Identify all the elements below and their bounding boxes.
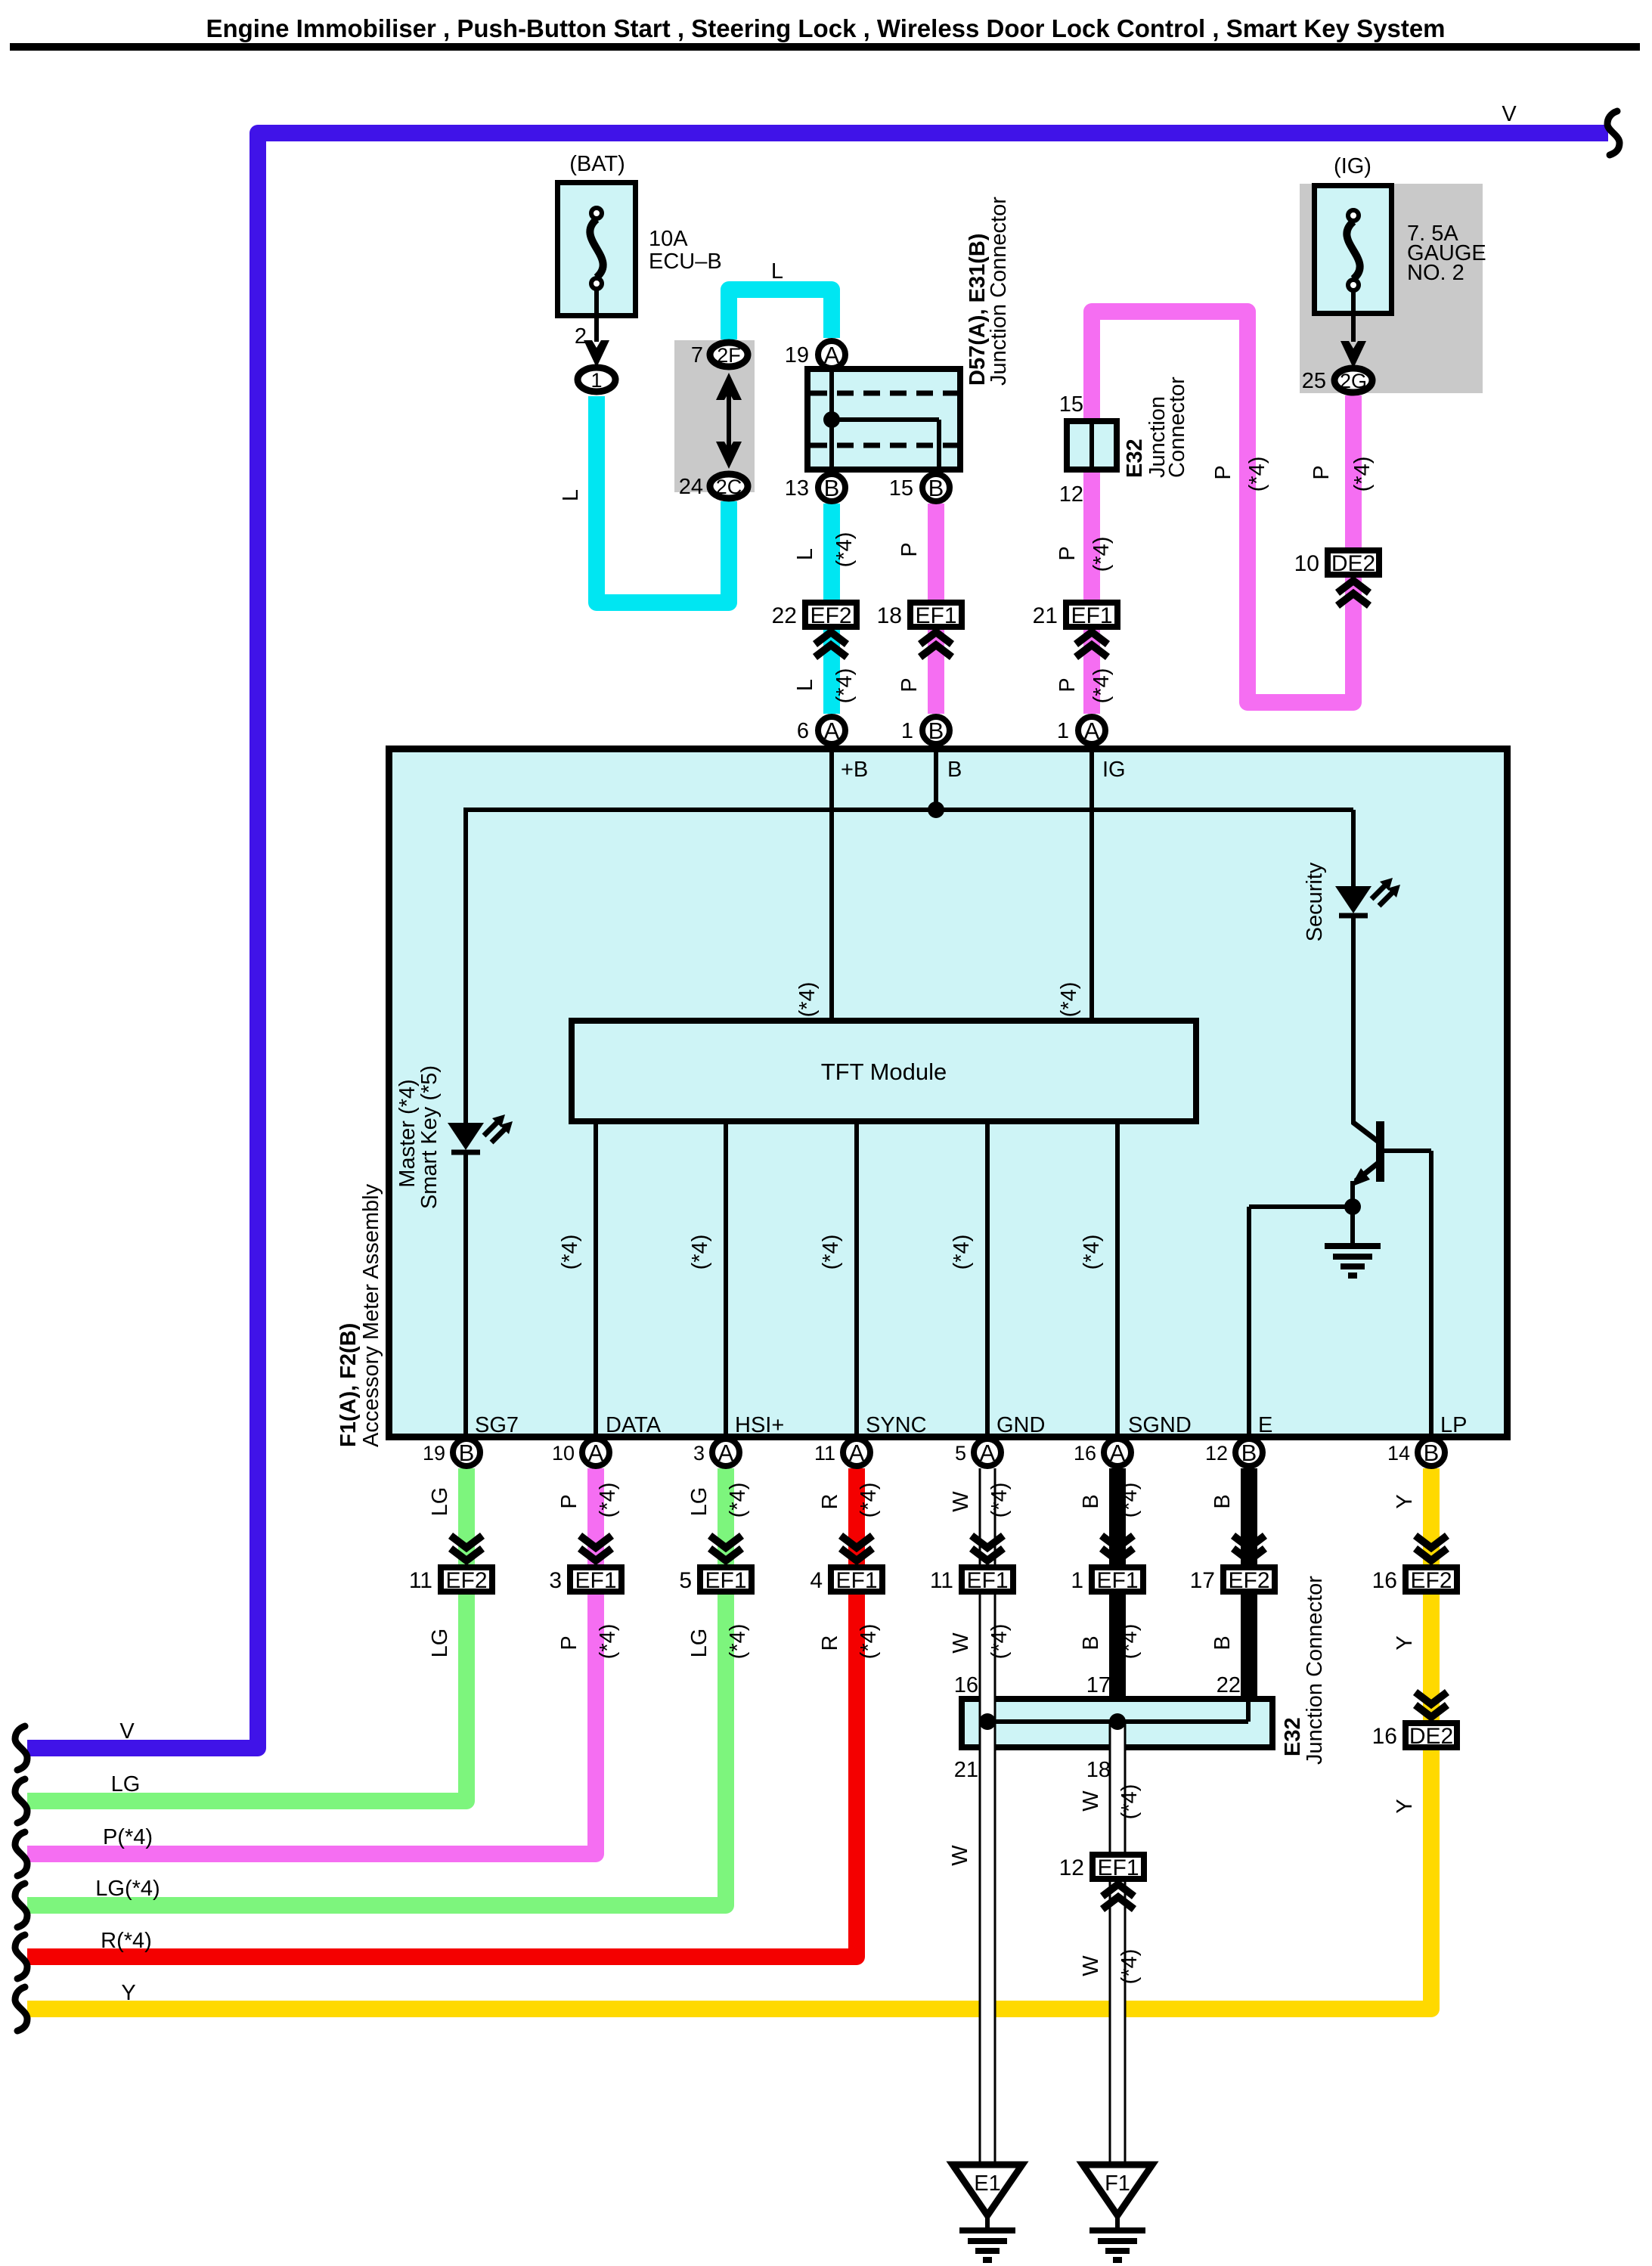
pin B13 of D57 (818, 474, 845, 501)
svg-text:E: E (1258, 1413, 1272, 1437)
svg-text:17: 17 (1086, 1673, 1111, 1697)
D57 internal joint (832, 417, 939, 422)
svg-text:13: 13 (785, 476, 809, 501)
svg-text:1: 1 (1057, 719, 1069, 743)
wire V violet: battery feed (27, 133, 1608, 1748)
meter pin B19 (SG7) (453, 1439, 480, 1466)
meter pin A10 (DATA) (582, 1439, 609, 1466)
svg-text:10: 10 (552, 1442, 575, 1465)
LED Security (1335, 886, 1372, 913)
svg-text:A: A (588, 1440, 604, 1466)
svg-text:LG: LG (428, 1629, 452, 1658)
svg-text:TFT Module: TFT Module (821, 1059, 947, 1085)
svg-text:16: 16 (1372, 1724, 1397, 1749)
wire W white: GND pin A5 to ground E1 (979, 1468, 996, 2165)
svg-text:(*4): (*4) (832, 668, 857, 704)
meter pin A16 (SGND) (1104, 1439, 1131, 1466)
svg-text:EF1: EF1 (1096, 1568, 1138, 1593)
wire B black: meter pin A16 SGND to junction E32 (1109, 1468, 1126, 1722)
svg-text:(*4): (*4) (987, 1624, 1012, 1660)
wire P pink: junction B15 to meter pin B1 (928, 504, 944, 714)
svg-text:Engine Immobiliser , Push-Butt: Engine Immobiliser , Push-Button Start ,… (206, 14, 1445, 42)
svg-text:W: W (949, 1632, 973, 1654)
connector oval 2G (1334, 368, 1372, 392)
svg-text:17: 17 (1190, 1568, 1215, 1593)
svg-text:L: L (793, 679, 817, 691)
ground F1 (1083, 2165, 1152, 2215)
svg-text:(*4): (*4) (1089, 668, 1114, 704)
wire L cyan: connector 2F to junction A19 (729, 290, 832, 339)
svg-text:Security: Security (1303, 862, 1327, 941)
svg-text:16: 16 (1074, 1442, 1096, 1465)
svg-text:(*4): (*4) (1117, 1784, 1142, 1820)
splice EF1 pin 12 (SGND W) (1102, 1884, 1134, 1896)
svg-text:2: 2 (575, 324, 587, 349)
splice EF1 pin 18 (920, 632, 952, 644)
svg-text:4: 4 (810, 1568, 823, 1593)
svg-text:Y: Y (121, 1981, 135, 2005)
break symbol V left (15, 1726, 27, 1770)
svg-text:11: 11 (409, 1568, 432, 1593)
svg-text:5: 5 (955, 1442, 966, 1465)
meter pin B12 (E) (1235, 1439, 1263, 1466)
svg-text:EF1: EF1 (1097, 1855, 1139, 1880)
svg-text:3: 3 (549, 1568, 562, 1593)
svg-text:L: L (559, 489, 583, 501)
svg-text:(*4): (*4) (1117, 1949, 1142, 1985)
svg-text:(*4): (*4) (1350, 457, 1375, 492)
svg-text:LG: LG (687, 1629, 711, 1658)
svg-text:V: V (119, 1719, 135, 1744)
svg-text:(*4): (*4) (1245, 457, 1269, 492)
svg-text:LG: LG (687, 1487, 711, 1517)
svg-text:19: 19 (423, 1442, 445, 1465)
svg-text:15: 15 (1059, 392, 1083, 417)
svg-text:SYNC: SYNC (866, 1413, 927, 1437)
svg-text:DE2: DE2 (1331, 551, 1375, 576)
svg-text:W: W (1079, 1790, 1103, 1812)
break symbol LG4 left (15, 1883, 27, 1927)
meter pin B1 (B) (922, 717, 950, 744)
svg-text:(*4): (*4) (819, 1235, 843, 1270)
meter internal IG line (1089, 749, 1094, 1021)
wire P pink: fuse 2G via DE2 to junction E32 (1092, 312, 1353, 702)
svg-text:E32: E32 (1281, 1717, 1305, 1756)
svg-text:25: 25 (1302, 369, 1326, 393)
E32 internal bus (987, 1719, 1248, 1724)
svg-text:Junction Connector: Junction Connector (1303, 1576, 1327, 1765)
SG7 line to pin B19 (463, 1152, 468, 1444)
svg-text:19: 19 (785, 343, 809, 367)
svg-text:(BAT): (BAT) (569, 152, 625, 176)
ground (internal) (1325, 1243, 1381, 1249)
svg-text:P(*4): P(*4) (103, 1825, 153, 1849)
svg-text:E32: E32 (1123, 439, 1147, 478)
svg-text:ECU–B: ECU–B (649, 250, 722, 274)
svg-text:B: B (928, 718, 944, 744)
svg-text:14: 14 (1387, 1442, 1410, 1465)
svg-text:(*4): (*4) (1117, 1624, 1142, 1660)
svg-text:NO. 2: NO. 2 (1407, 261, 1464, 285)
svg-text:Y: Y (1393, 1494, 1417, 1508)
wire LG: meter pin B19 SG7 to left edge (27, 1468, 466, 1801)
splice EF1 pin 3 (DATA) (580, 1536, 612, 1548)
svg-text:EF1: EF1 (915, 603, 956, 628)
meter internal supply rail (466, 808, 1353, 812)
splice EF2 pin 22 (815, 632, 847, 644)
svg-text:12: 12 (1205, 1442, 1228, 1465)
svg-text:(*4): (*4) (795, 982, 820, 1018)
splice DE2 pin 16 (LP) (1415, 1692, 1447, 1704)
svg-text:(*4): (*4) (987, 1483, 1012, 1518)
svg-text:(*4): (*4) (1117, 1483, 1142, 1518)
svg-text:18: 18 (877, 603, 902, 628)
svg-text:(*4): (*4) (832, 532, 857, 568)
break symbol LG left (15, 1779, 27, 1823)
svg-text:A: A (718, 1440, 734, 1466)
svg-text:DATA: DATA (606, 1413, 662, 1437)
svg-text:6: 6 (797, 719, 809, 743)
splice EF1 pin 21 (1076, 632, 1108, 644)
base line to LP pin (1382, 1148, 1431, 1153)
svg-text:P: P (1310, 465, 1334, 479)
svg-text:Junction Connector: Junction Connector (987, 197, 1011, 386)
break symbol Y left (15, 1987, 27, 2031)
pin A19 of D57 (818, 341, 845, 368)
svg-text:W: W (949, 1491, 973, 1512)
pin B15 of D57 (922, 474, 950, 501)
meter internal B line (934, 749, 938, 810)
meter pin A3 (HSI+) (712, 1439, 739, 1466)
svg-text:2C: 2C (716, 476, 742, 498)
svg-text:Master (*4): Master (*4) (395, 1079, 420, 1187)
svg-text:P: P (897, 677, 922, 692)
svg-text:1: 1 (1071, 1568, 1083, 1593)
svg-text:11: 11 (930, 1568, 953, 1593)
svg-text:A: A (849, 1440, 865, 1466)
svg-text:(*4): (*4) (726, 1483, 750, 1518)
svg-text:1: 1 (590, 369, 602, 392)
splice EF2 pin 11 (SG7) (451, 1536, 482, 1548)
svg-text:5: 5 (679, 1568, 692, 1593)
junction connector D57(A),E31(B) box (807, 369, 960, 470)
svg-text:EF1: EF1 (575, 1568, 616, 1593)
meter internal +B line (829, 749, 834, 1021)
svg-text:LG: LG (111, 1772, 141, 1796)
meter pin A11 (SYNC) (843, 1439, 870, 1466)
svg-text:+B: +B (841, 758, 868, 782)
splice EF1 pin 1 (SGND) (1102, 1536, 1133, 1548)
svg-text:16: 16 (1372, 1568, 1397, 1593)
svg-text:EF1: EF1 (705, 1568, 746, 1593)
svg-text:EF1: EF1 (835, 1568, 877, 1593)
connector oval 2F (710, 343, 748, 367)
svg-text:(*4): (*4) (857, 1624, 881, 1660)
meter pin A6 (+B) (818, 717, 845, 744)
svg-text:EF1: EF1 (1071, 603, 1112, 628)
break symbol P left (15, 1832, 27, 1876)
meter pin B14 (LP) (1418, 1439, 1445, 1466)
svg-text:E1: E1 (974, 2171, 1000, 2196)
svg-text:(*4): (*4) (1057, 982, 1081, 1018)
svg-text:B: B (1079, 1494, 1103, 1508)
break symbol V right (1607, 111, 1619, 155)
wire B black: meter pin B12 E to junction E32 pin 22 (1241, 1468, 1257, 1722)
wire W white: E32 pin 18 to ground F1 (1109, 1722, 1127, 2165)
svg-text:(*4): (*4) (726, 1624, 750, 1660)
collector line (1351, 916, 1356, 1124)
fuse 10A ECU-B (BAT) box (558, 183, 636, 316)
svg-text:P: P (1055, 546, 1080, 560)
junction connector E32 (lower) box (962, 1699, 1272, 1747)
splice EF1 pin 4 (SYNC) (841, 1536, 872, 1548)
wire P pink: junction E32 to meter pin A1 (IG) (1083, 439, 1100, 714)
break symbol R left (15, 1935, 27, 1979)
meter pin A1 (IG) (1078, 717, 1105, 744)
svg-text:P: P (557, 1635, 581, 1650)
emitter line to ground (1350, 1181, 1355, 1244)
svg-text:EF2: EF2 (1410, 1568, 1452, 1593)
svg-text:P: P (1211, 465, 1235, 479)
fuse 7.5A GAUGE NO.2 (IG) box (1315, 186, 1392, 314)
svg-text:SGND: SGND (1128, 1413, 1192, 1437)
connector 2F/2C gray panel (674, 340, 755, 492)
svg-text:Y: Y (1393, 1635, 1417, 1650)
svg-text:Smart Key (*5): Smart Key (*5) (417, 1065, 442, 1209)
splice EF2 pin 16 (LP) (1415, 1536, 1447, 1548)
svg-text:15: 15 (889, 476, 913, 501)
svg-text:(*4): (*4) (688, 1235, 712, 1270)
svg-text:(*4): (*4) (857, 1483, 881, 1518)
svg-text:22: 22 (1217, 1673, 1241, 1697)
svg-text:A: A (980, 1440, 996, 1466)
svg-text:LG: LG (428, 1487, 452, 1517)
TFT output lines (594, 1124, 598, 1444)
splice EF1 pin 5 (HSI+) (710, 1536, 742, 1548)
svg-text:EF2: EF2 (810, 603, 851, 628)
splice DE2 pin 10 (1337, 581, 1369, 593)
svg-text:B: B (1424, 1440, 1440, 1466)
svg-text:(*4): (*4) (950, 1235, 974, 1270)
svg-text:Y: Y (1393, 1799, 1417, 1813)
svg-text:(*4): (*4) (596, 1483, 620, 1518)
svg-text:24: 24 (679, 475, 703, 499)
svg-text:EF2: EF2 (1228, 1568, 1269, 1593)
svg-text:2F: 2F (717, 344, 741, 367)
connector oval 1 (578, 367, 615, 392)
svg-text:W: W (1079, 1955, 1103, 1976)
svg-text:B: B (459, 1440, 475, 1466)
svg-text:3: 3 (693, 1442, 705, 1465)
connector oval 2C (710, 474, 748, 498)
svg-text:1: 1 (901, 719, 913, 743)
svg-text:LP: LP (1440, 1413, 1467, 1437)
svg-text:R: R (818, 1635, 842, 1651)
svg-text:A: A (824, 342, 840, 368)
wire L cyan: fuse ECU-B to connector 2C (597, 396, 729, 603)
svg-text:(*4): (*4) (558, 1235, 582, 1270)
svg-text:LG(*4): LG(*4) (95, 1877, 160, 1901)
svg-text:B: B (1210, 1635, 1235, 1650)
splice EF2 pin 17 (E) (1233, 1536, 1265, 1548)
svg-text:EF1: EF1 (966, 1568, 1008, 1593)
svg-text:B: B (1079, 1635, 1103, 1650)
svg-text:P: P (897, 542, 922, 556)
junction dot on rail (928, 801, 944, 818)
svg-text:2G: 2G (1340, 370, 1367, 392)
svg-text:HSI+: HSI+ (735, 1413, 784, 1437)
svg-text:(IG): (IG) (1334, 154, 1372, 178)
svg-text:L: L (793, 548, 817, 560)
wire LG: meter pin A3 HSI+ to left edge (27, 1468, 726, 1905)
svg-text:R: R (818, 1494, 842, 1510)
TFT Module box (572, 1021, 1196, 1121)
svg-text:B: B (1210, 1494, 1235, 1508)
svg-text:16: 16 (954, 1673, 978, 1697)
security LED feed line (1351, 810, 1356, 888)
wire Y yellow: meter pin B14 LP to left edge (27, 1468, 1431, 2009)
svg-text:V: V (1502, 102, 1517, 126)
svg-text:R(*4): R(*4) (101, 1929, 152, 1953)
svg-text:EF2: EF2 (445, 1568, 487, 1593)
accessory meter assembly F1(A),F2(B) box (389, 749, 1508, 1437)
svg-text:A: A (1110, 1440, 1126, 1466)
LED Master/Smart Key (448, 1123, 484, 1150)
svg-text:P: P (1055, 677, 1080, 692)
svg-text:11: 11 (814, 1442, 835, 1465)
fuse ECU-B lead with arrow to connector pin 1 (594, 288, 599, 342)
transistor Q (security driver) (1376, 1121, 1384, 1182)
title underline (10, 43, 1640, 51)
svg-text:21: 21 (1033, 603, 1058, 628)
svg-text:DE2: DE2 (1409, 1724, 1453, 1749)
svg-text:7: 7 (691, 343, 703, 367)
svg-text:B: B (824, 475, 840, 501)
svg-text:12: 12 (1059, 1855, 1084, 1880)
svg-text:SG7: SG7 (475, 1413, 519, 1437)
svg-text:12: 12 (1059, 482, 1083, 507)
svg-text:B: B (1241, 1440, 1257, 1466)
svg-text:Accessory Meter Assembly: Accessory Meter Assembly (359, 1183, 383, 1447)
svg-text:A: A (824, 718, 840, 744)
splice EF1 pin 11 (GND) (972, 1536, 1003, 1548)
double arrow between 2F and 2C (727, 378, 731, 463)
svg-text:W: W (948, 1845, 972, 1866)
svg-text:(*4): (*4) (1080, 1235, 1104, 1270)
fuse GAUGE NO.2 gray panel (1300, 184, 1483, 393)
svg-text:A: A (1084, 718, 1100, 744)
svg-text:F1(A), F2(B): F1(A), F2(B) (336, 1323, 361, 1447)
svg-text:GND: GND (996, 1413, 1045, 1437)
svg-text:IG: IG (1102, 758, 1126, 782)
svg-text:10: 10 (1294, 551, 1319, 576)
junction connector E32 (upper) box (1067, 421, 1117, 470)
line from emitter junction to E pin (1249, 1204, 1353, 1209)
wire P pink: meter pin A10 DATA to left edge (27, 1468, 596, 1854)
fuse GAUGE lead with arrow to connector pin 2G (1351, 290, 1356, 342)
svg-text:(*4): (*4) (1089, 537, 1114, 572)
svg-text:L: L (771, 259, 783, 284)
svg-text:10A: 10A (649, 227, 688, 251)
svg-text:Connector: Connector (1165, 377, 1189, 478)
svg-text:18: 18 (1086, 1758, 1111, 1782)
wire R red: meter pin A11 SYNC to left edge (27, 1468, 857, 1957)
svg-text:F1: F1 (1105, 2171, 1130, 2196)
ground E1 (953, 2165, 1022, 2215)
svg-text:21: 21 (954, 1758, 978, 1782)
svg-text:22: 22 (772, 603, 797, 628)
meter pin A5 (GND) (974, 1439, 1001, 1466)
svg-text:P: P (557, 1494, 581, 1508)
svg-text:B: B (928, 475, 944, 501)
svg-text:(*4): (*4) (596, 1624, 620, 1660)
svg-text:B: B (947, 758, 962, 782)
wire L cyan: junction B13 to meter pin A6 (823, 504, 840, 714)
